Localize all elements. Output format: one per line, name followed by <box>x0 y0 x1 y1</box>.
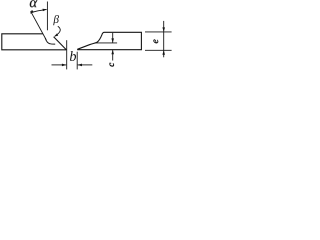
left plate lower flank (beta flank) <box>54 37 67 50</box>
e top extension line <box>145 31 172 33</box>
alpha dimension arc <box>31 9 47 13</box>
c upper arrow (points down) <box>111 38 114 42</box>
label b <box>70 51 76 61</box>
label c (rotated) <box>110 63 114 67</box>
c dimension line lower <box>112 50 114 61</box>
b left extension line <box>66 40 68 69</box>
c root-face level line <box>96 42 118 44</box>
beta leader arc <box>55 26 60 36</box>
e upper arrow (points down) <box>162 27 165 32</box>
b dimension line right tail <box>78 64 93 66</box>
b left arrow (points right) <box>62 64 67 67</box>
bevel construction slant <box>31 11 47 40</box>
beta arrowhead (points SW at flank) <box>54 33 58 36</box>
b right arrow (points left) <box>77 64 82 67</box>
e lower arrow (points up) <box>162 50 165 55</box>
alpha arc arrowhead right (points E at vline) <box>43 9 47 12</box>
left plate J-groove curve <box>45 38 55 44</box>
e bottom extension line <box>145 49 172 51</box>
label alpha <box>30 0 38 7</box>
label e (rotated) <box>154 39 159 43</box>
label beta <box>53 15 59 25</box>
e dimension line <box>163 21 165 57</box>
c dimension line upper <box>112 33 114 43</box>
alpha arc arrowhead left (points SE at slant) <box>30 10 34 14</box>
right plate outline <box>78 32 142 49</box>
vertical reference line <box>46 2 48 31</box>
b dimension line left tail <box>52 64 67 66</box>
c lower arrow (points up) <box>111 50 114 54</box>
left plate outline <box>2 34 67 50</box>
b right extension line <box>76 52 78 70</box>
